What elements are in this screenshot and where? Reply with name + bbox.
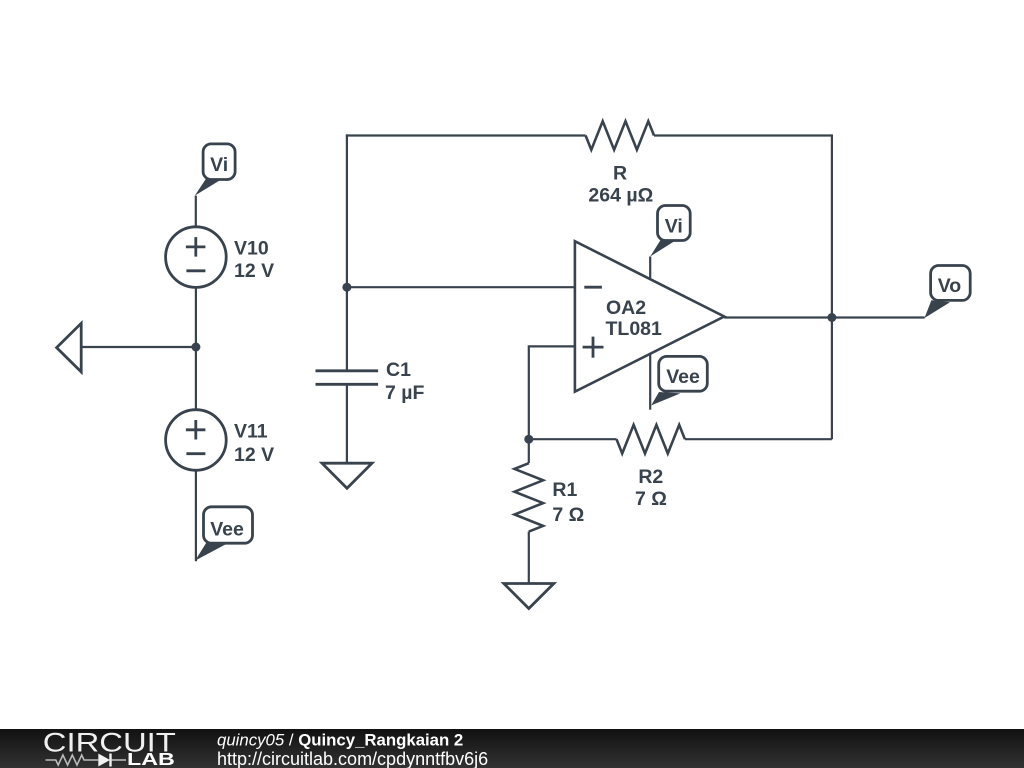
svg-text:R: R bbox=[613, 163, 627, 185]
ground (below C1) bbox=[322, 463, 372, 488]
svg-text:12 V: 12 V bbox=[234, 260, 274, 282]
label OA2 TL081 bbox=[606, 297, 663, 340]
svg-text:7 Ω: 7 Ω bbox=[635, 488, 667, 510]
svg-text:LAB: LAB bbox=[127, 749, 175, 768]
resistor R bbox=[586, 121, 654, 150]
net flag Vo bbox=[925, 266, 971, 319]
svg-text:Vee: Vee bbox=[210, 518, 244, 540]
svg-text:V10: V10 bbox=[234, 238, 269, 260]
wire junction up and to non-inverting input bbox=[529, 346, 575, 439]
footer url text bbox=[217, 749, 488, 768]
svg-text:Vi: Vi bbox=[665, 215, 683, 237]
junction node R1 / R2 / non-inverting bbox=[524, 435, 533, 444]
wire top rail left drop (C1 branch) bbox=[346, 134, 348, 370]
svg-text:R1: R1 bbox=[552, 479, 577, 501]
wire feedback row right segment bbox=[685, 438, 832, 440]
ground (below R1) bbox=[504, 584, 554, 609]
wire output down to feedback row bbox=[831, 318, 833, 440]
wire feedback row left segment bbox=[529, 438, 617, 440]
label R 264 µΩ bbox=[588, 163, 653, 207]
resistor R2 bbox=[617, 425, 685, 454]
svg-text:Vo: Vo bbox=[938, 275, 962, 297]
svg-text:OA2: OA2 bbox=[606, 297, 646, 319]
CircuitLab logo CIRCUIT bbox=[43, 728, 176, 758]
wire right drop to output bbox=[831, 134, 833, 317]
wire to left antenna bbox=[82, 346, 196, 348]
net flag Vee (op-amp V-) bbox=[651, 356, 707, 405]
wire op-amp output bbox=[724, 316, 925, 318]
label V10 12 V bbox=[234, 238, 274, 282]
wire V11 to flag Vee bbox=[195, 470, 197, 561]
svg-text:TL081: TL081 bbox=[606, 318, 663, 340]
svg-text:http://circuitlab.com/cpdynntf: http://circuitlab.com/cpdynntfbv6j6 bbox=[217, 749, 488, 768]
wire top rail right segment bbox=[654, 134, 832, 136]
svg-text:Vi: Vi bbox=[210, 154, 228, 176]
svg-text:quincy05 / Quincy_Rangkaian 2: quincy05 / Quincy_Rangkaian 2 bbox=[217, 730, 463, 749]
svg-text:R2: R2 bbox=[638, 466, 663, 488]
net flag Vee (negative supply) bbox=[195, 507, 252, 561]
wire V- pin to flag Vee bbox=[649, 355, 651, 410]
svg-text:12 V: 12 V bbox=[234, 444, 274, 466]
wire V10 to V11 bbox=[195, 287, 197, 409]
svg-text:C1: C1 bbox=[386, 359, 411, 381]
antenna symbol (left triangle) bbox=[57, 323, 82, 372]
label C1 7 µF bbox=[385, 359, 424, 404]
CircuitLab logo LAB bbox=[127, 749, 175, 768]
svg-text:V11: V11 bbox=[234, 421, 268, 443]
svg-text:7 µF: 7 µF bbox=[385, 382, 424, 404]
capacitor C1 bbox=[316, 371, 379, 385]
wire junction to R1 bbox=[528, 439, 530, 463]
footer title text bbox=[217, 730, 463, 749]
svg-text:Vee: Vee bbox=[666, 366, 700, 388]
label V11 12 V bbox=[234, 421, 274, 466]
wire to inverting input bbox=[347, 286, 575, 288]
label R1 7 Ω bbox=[552, 479, 584, 526]
net flag Vi (op-amp V+) bbox=[650, 206, 690, 257]
voltage source V10 bbox=[166, 227, 227, 288]
footer bar bbox=[0, 729, 1024, 768]
label R2 7 Ω bbox=[635, 466, 667, 510]
wire flag Vi to V10 bbox=[195, 196, 197, 227]
junction node output bbox=[827, 313, 836, 322]
op-amp OA2 TL081 bbox=[575, 241, 724, 392]
wire top rail left segment bbox=[346, 134, 586, 136]
junction node between V10 and V11 bbox=[191, 343, 200, 352]
junction node C1 / inverting input bbox=[342, 283, 351, 292]
CircuitLab logo resistor-diode glyph bbox=[46, 754, 127, 767]
wire V+ pin to flag Vi bbox=[649, 257, 651, 281]
wire R1 to ground bbox=[528, 532, 530, 584]
net flag Vi (input source) bbox=[195, 144, 235, 196]
svg-text:7 Ω: 7 Ω bbox=[552, 504, 584, 526]
voltage source V11 bbox=[166, 410, 227, 471]
resistor R1 bbox=[515, 463, 544, 531]
svg-text:264 µΩ: 264 µΩ bbox=[588, 185, 653, 207]
wire C1 to ground bbox=[346, 384, 348, 463]
